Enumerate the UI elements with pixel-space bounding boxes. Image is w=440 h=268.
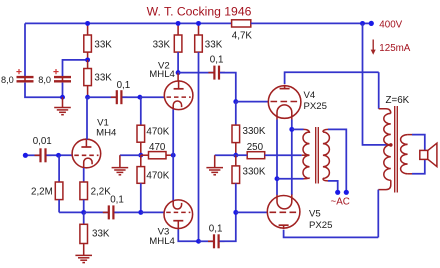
node R1/R2/C2 junction (85, 57, 90, 62)
wire V2 anode stem (177, 73, 179, 81)
wire C2 top to 33K/33K junction (63, 60, 88, 76)
resistor R5 33K bias feed (83, 212, 85, 224)
svg-text:MHL4: MHL4 (149, 236, 175, 247)
svg-text:470K: 470K (146, 127, 169, 138)
capacitor C6 0,1 coupling V2-V4 (208, 72, 214, 74)
wire V2 cathode to junction (172, 109, 174, 155)
resistor R3 2,2M grid leak (58, 155, 60, 182)
winding T2 filament secondary (303, 132, 310, 178)
wire C5 to V1 grid (47, 154, 73, 156)
svg-text:330K: 330K (243, 126, 266, 137)
svg-text:8,0: 8,0 (38, 75, 51, 85)
wire T1 secondary top lead to speaker (408, 134, 412, 136)
svg-text:2,2K: 2,2K (91, 187, 112, 198)
resistor R9 33K V2 anode load (177, 23, 179, 35)
svg-text:PX25: PX25 (304, 101, 327, 112)
wire C3 to V2 grid node (122, 96, 139, 98)
wire R13 left lead (236, 154, 247, 156)
resistor R1 33K decoupling upper (87, 23, 89, 35)
node junction HT/OPT centre tap (360, 21, 365, 26)
wire bias row to C4 (84, 211, 108, 213)
svg-text:33K: 33K (92, 229, 110, 240)
svg-text:470K: 470K (146, 170, 169, 181)
core of T1 (394, 106, 396, 193)
svg-text:125mA: 125mA (379, 43, 411, 54)
core of T2 (315, 127, 317, 184)
capacitor C2 8,0 smoothing (62, 76, 64, 82)
wire V4 filament left leg down (276, 120, 278, 179)
svg-text:MH4: MH4 (96, 128, 117, 139)
svg-text:W. T. Cocking 1946: W. T. Cocking 1946 (147, 5, 252, 19)
wire R11 to centre (235, 143, 237, 156)
wire R6 to divider centre (140, 142, 142, 155)
wire V1 anode to R2 node (86, 97, 88, 139)
node OPT centre tap (389, 143, 393, 147)
wire R10 long lead to V3 anode row (198, 52, 200, 241)
svg-text:Z=6K: Z=6K (386, 95, 410, 106)
wire V2 anode to C6 (178, 72, 213, 74)
wire T2 primary top lead to AC terminal (323, 129, 328, 132)
ground below divider centre (112, 167, 129, 169)
node HT rail / R10 (196, 21, 201, 26)
capacitor C7 0,1 coupling V3-V5 (208, 240, 214, 242)
wire HT to OPT centre tap (363, 23, 387, 144)
triode V1 MH4 envelope+anode+grid (72, 139, 101, 168)
wire R4 to bias row (83, 200, 85, 213)
resistor R2 33K decoupling lower (84, 69, 92, 86)
svg-text:V4: V4 (304, 90, 316, 101)
svg-text:0,1: 0,1 (209, 224, 223, 235)
wire OPT bottom to V5 anode row (377, 190, 379, 238)
svg-text:2,2M: 2,2M (31, 187, 53, 198)
wire HT rail right segment (251, 22, 363, 24)
svg-text:250: 250 (247, 142, 264, 153)
resistor 4,7K HT dropper (232, 20, 251, 27)
node V2/V3 cathode junction (171, 153, 176, 158)
wire V3 grid lead (141, 211, 164, 213)
svg-text:V5: V5 (309, 209, 321, 220)
svg-text:~AC: ~AC (331, 197, 350, 208)
node filament winding bottom junction (275, 176, 280, 181)
ground below grid-leak centre (206, 167, 223, 169)
wire R12 to V5 grid node (235, 183, 237, 212)
ground below R5 (83, 244, 85, 256)
triode V3 MHL4 envelope+anode+grid (164, 200, 193, 229)
resistor R13 250 cathode bias (247, 152, 265, 159)
wire V3 anode down and right (178, 230, 198, 242)
wire C2 bottom to ground (62, 83, 64, 98)
node V3 grid junction (138, 210, 143, 215)
svg-text:33K: 33K (205, 40, 223, 51)
triode V4 PX25 envelope+anode+grid (268, 86, 301, 119)
winding T2 mains primary (323, 132, 330, 178)
svg-text:MHL4: MHL4 (149, 69, 175, 80)
node V1 grid / R3 junction (56, 153, 61, 158)
winding T1 primary upper (384, 113, 391, 144)
node C1/C2 ground junction (60, 95, 65, 100)
svg-text:0,1: 0,1 (210, 55, 224, 66)
speaker LS1 (428, 143, 437, 166)
cathode of V1 (84, 158, 92, 168)
wire V1 anode node to C3 (88, 96, 116, 98)
wire T1 secondary bottom lead to speaker (408, 173, 412, 175)
capacitor C1 8,0 smoothing (24, 76, 26, 82)
polarity + of C1 (16, 71, 21, 73)
wire R7 right lead (166, 154, 173, 156)
wire R8 to V3 grid node (140, 183, 142, 212)
node V2 anode junction (176, 70, 181, 75)
resistor R6 470K upper divider (140, 97, 142, 125)
node 400V terminal (369, 21, 374, 26)
svg-text:400V: 400V (379, 19, 402, 30)
wire V3 cathode to junction (172, 155, 174, 200)
resistor R4 2,2K cathode bias (83, 168, 85, 182)
polarity + of C2 (53, 71, 58, 73)
node V5 grid junction (233, 210, 238, 215)
arrow 125mA current direction (372, 40, 374, 51)
svg-text:4,7K: 4,7K (232, 31, 253, 42)
wire C4 to divider junction (114, 211, 140, 213)
resistor R7 470 common cathode (149, 152, 167, 159)
node filament winding top junction (289, 127, 294, 132)
wire V4 anode up and right (285, 72, 379, 84)
node grid-leak centre junction (233, 153, 238, 158)
winding T1 secondary (401, 135, 408, 174)
wire V5 filament left leg up (276, 179, 278, 195)
capacitor C3 0,1 coupling V1-V2 (111, 96, 117, 98)
wire V3 anode row to C7 (199, 240, 214, 242)
capacitor C4 0,1 coupling to V3 grid (103, 211, 109, 213)
wire 400V terminal stub (363, 22, 372, 24)
wire HT rail left segment (25, 22, 232, 24)
node V2 grid junction (137, 95, 142, 100)
svg-text:8,0: 8,0 (1, 75, 14, 85)
wire V4 grid lead (236, 101, 268, 103)
node AC terminal right (344, 190, 349, 195)
wire HT rail down to C1 (24, 23, 26, 76)
node HT rail / R9 (176, 21, 181, 26)
capacitor C5 0,01 input (35, 154, 41, 156)
svg-text:33K: 33K (153, 40, 171, 51)
wire R2 to V1 anode node (87, 86, 89, 98)
cathode of V3 (173, 200, 181, 209)
svg-text:0,1: 0,1 (110, 194, 124, 205)
triode V5 PX25 envelope+anode+grid (267, 196, 300, 229)
wire V4 filament right leg down (291, 120, 293, 196)
wire C7 to V5 grid riser (220, 212, 236, 241)
svg-text:470: 470 (149, 142, 166, 153)
resistor R12 330K V5 grid leak (232, 166, 240, 184)
resistor R10 33K V3 anode load (198, 23, 200, 35)
wire input terminal to C5 (25, 154, 39, 156)
wire V2 grid lead (140, 96, 165, 98)
node divider centre junction (138, 153, 143, 158)
wire bias row left (59, 211, 84, 213)
wire R1 to R2 (87, 52, 89, 60)
svg-text:0,01: 0,01 (33, 136, 52, 147)
resistor R11 330K V4 grid leak (235, 102, 237, 126)
node V4 grid junction (233, 99, 238, 104)
wire R7 left lead (141, 154, 149, 156)
node V1 bias junction (81, 210, 86, 215)
wire R13 to filament centre tap (265, 154, 302, 156)
wire V5 grid lead (236, 211, 267, 213)
ground wire of divider centre (120, 154, 141, 156)
node V3 anode junction (196, 239, 201, 244)
wire T1 primary bottom lead (378, 180, 391, 189)
triode V2 MHL4 envelope+anode+grid (164, 81, 193, 110)
node V1 anode junction (85, 95, 90, 100)
svg-text:0,1: 0,1 (117, 80, 131, 91)
node AC terminal left (335, 190, 340, 195)
svg-text:33K: 33K (94, 40, 112, 51)
wire R3 to bias row (58, 200, 60, 213)
resistor R8 470K lower divider (137, 167, 145, 184)
wire T2 primary bottom lead to AC terminal (323, 178, 328, 181)
wire V4 anode riser to OPT (378, 72, 380, 109)
wire C1 bottom to ground bus (25, 83, 63, 98)
wire C6 to V4 grid riser (220, 73, 236, 102)
wire R9 to V2 anode (177, 52, 179, 73)
filament of V4 (277, 105, 292, 120)
winding T1 primary lower (384, 145, 391, 180)
wire V5 anode down and right (284, 230, 379, 238)
svg-text:33K: 33K (94, 72, 112, 83)
node input terminal (23, 153, 28, 158)
node HT rail / R1 (85, 21, 90, 26)
cathode of V2 (173, 101, 181, 110)
ground wire of grid-leak centre (215, 154, 236, 156)
ground below smoothing capacitors (62, 97, 64, 107)
wire T2 secondary bottom lead (277, 178, 304, 180)
svg-text:330K: 330K (243, 166, 266, 177)
wire T2 secondary top lead (292, 128, 304, 130)
svg-text:PX25: PX25 (309, 220, 332, 231)
wire T1 primary top lead (379, 109, 391, 114)
filament of V5 (277, 195, 292, 209)
